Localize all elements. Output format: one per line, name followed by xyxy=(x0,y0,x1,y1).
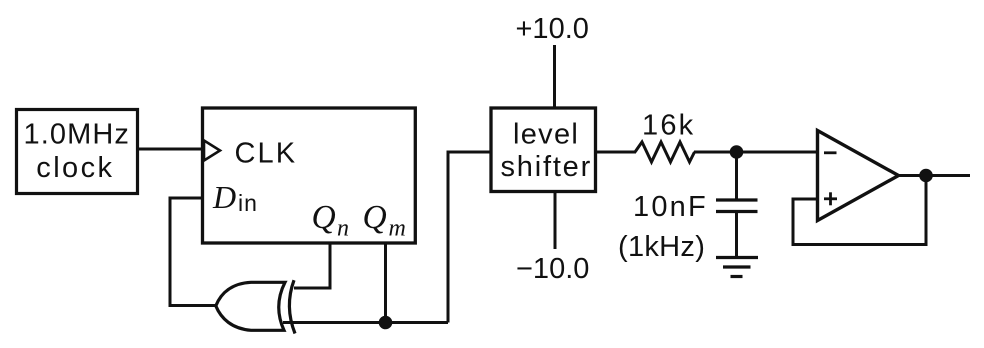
svg-text:+10.0: +10.0 xyxy=(516,13,589,45)
svg-text:level: level xyxy=(513,119,579,151)
wire resistor to op-amp inverting input xyxy=(694,151,818,154)
capacitor C 10nF xyxy=(716,152,758,212)
svg-text:−10.0: −10.0 xyxy=(516,253,589,285)
wire level shifter to -10.0 supply xyxy=(554,191,557,250)
svg-text:16k: 16k xyxy=(642,110,695,142)
wire capacitor to ground xyxy=(735,212,738,258)
wire Qn to XOR top input xyxy=(294,243,330,288)
op-amp inverting input marker - xyxy=(824,151,837,154)
wire XOR output to Din xyxy=(170,198,216,306)
wire op-amp output xyxy=(899,174,971,177)
node: op-amp output xyxy=(919,169,933,183)
label "level shifter" xyxy=(501,119,593,184)
svg-text:Q: Q xyxy=(312,199,336,236)
svg-text:D: D xyxy=(212,179,236,215)
svg-text:CLK: CLK xyxy=(235,137,298,169)
XOR gate body xyxy=(216,282,285,330)
svg-text:(1kHz): (1kHz) xyxy=(618,231,705,263)
svg-text:1.0MHz: 1.0MHz xyxy=(24,119,131,151)
resistor R 16k xyxy=(635,142,695,162)
svg-text:m: m xyxy=(389,216,406,242)
wire +10.0 supply to level shifter xyxy=(553,45,556,109)
wire Qm down to XOR bottom net xyxy=(384,243,387,323)
op-amp non-inverting input marker + xyxy=(824,192,837,205)
wire clock output to CLK input xyxy=(139,148,204,151)
wire XOR bottom input net to level shifter riser xyxy=(283,321,448,324)
node: Qm / XOR-input junction xyxy=(379,316,393,330)
CLK input triangle xyxy=(204,141,220,161)
shift register box xyxy=(203,108,416,243)
XOR gate second input arc xyxy=(289,280,295,333)
pin label Qm xyxy=(363,199,406,242)
pin label Qn xyxy=(312,199,350,242)
svg-text:shifter: shifter xyxy=(501,151,593,183)
pin label Din xyxy=(212,179,258,216)
label "1.0MHz clock" xyxy=(24,119,131,185)
svg-text:Q: Q xyxy=(363,199,387,236)
feedback wire op-amp output to non-inverting input xyxy=(793,176,926,245)
svg-text:n: n xyxy=(337,216,349,242)
svg-text:in: in xyxy=(238,190,258,216)
svg-text:10nF: 10nF xyxy=(633,191,708,223)
node: resistor / capacitor junction xyxy=(730,145,744,159)
level shifter box xyxy=(491,108,596,192)
op-amp triangle xyxy=(818,131,899,221)
svg-text:clock: clock xyxy=(36,152,114,184)
wire level shifter to resistor xyxy=(595,151,636,154)
wire riser to level shifter input xyxy=(448,152,490,323)
clock source box xyxy=(17,110,138,194)
ground xyxy=(716,258,758,277)
